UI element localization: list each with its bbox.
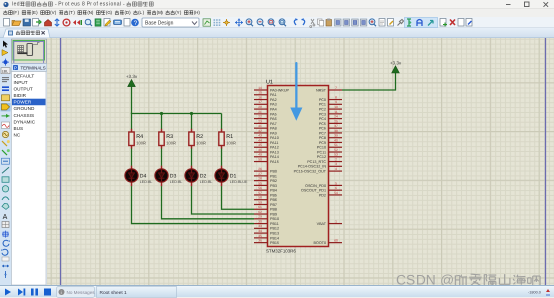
svg-text:PA2: PA2 — [270, 98, 277, 102]
LED D1 LED-BLUE — [215, 166, 248, 187]
svg-text:4: 4 — [335, 167, 337, 171]
svg-text:6: 6 — [335, 186, 337, 190]
pin PA0-WKUP (14) — [254, 86, 290, 93]
svg-text:BOOT0: BOOT0 — [314, 241, 327, 245]
svg-text:S: S — [406, 272, 415, 285]
svg-text:PB3: PB3 — [270, 184, 277, 188]
svg-text:): ) — [36, 10, 38, 15]
svg-text:PB5: PB5 — [270, 193, 277, 197]
svg-text:PB11: PB11 — [270, 222, 279, 226]
svg-text:30: 30 — [258, 219, 262, 223]
svg-text:PD2: PD2 — [319, 193, 326, 197]
svg-text:56: 56 — [258, 186, 262, 190]
pin PC14-OSC32_IN (3) — [298, 162, 342, 169]
wire: D2 to PB9 pin — [192, 186, 255, 214]
pin PB10 (29) — [254, 215, 279, 222]
svg-text:OSCOUT_PD1: OSCOUT_PD1 — [301, 189, 326, 193]
pin PC11 (52) — [317, 148, 342, 155]
wire: D1 to PB8 pin — [222, 186, 255, 209]
pin PB7 (59) — [254, 200, 277, 207]
svg-text:16: 16 — [258, 95, 262, 99]
svg-text:R3: R3 — [166, 134, 173, 140]
svg-text:PB13: PB13 — [270, 232, 279, 236]
svg-text:7: 7 — [335, 86, 337, 90]
svg-text:41: 41 — [258, 124, 262, 128]
svg-text:29: 29 — [258, 215, 262, 219]
svg-text:A: A — [3, 214, 8, 221]
svg-text:?: ? — [134, 20, 138, 27]
svg-text:+3.3v: +3.3v — [390, 61, 402, 66]
svg-text:PC3: PC3 — [319, 112, 326, 116]
wire: R4 to D4 — [131, 149, 133, 166]
svg-text:44: 44 — [258, 138, 262, 142]
svg-text:i: i — [61, 290, 62, 295]
pin PC10 (51) — [317, 143, 342, 150]
svg-text:STM32F103R6: STM32F103R6 — [266, 249, 296, 254]
svg-text:PC12: PC12 — [317, 155, 326, 159]
pin PA15 (50) — [254, 157, 279, 164]
watermark — [396, 272, 540, 287]
pin PC9 (40) — [319, 138, 342, 145]
svg-text:34: 34 — [258, 229, 262, 233]
wire: +3.3v horizontal rail — [131, 113, 222, 115]
junction on rail at R3 column — [160, 112, 163, 115]
wire: R1 to D1 — [221, 149, 223, 166]
pin PC12 (53) — [317, 153, 342, 160]
svg-text:35: 35 — [258, 234, 262, 238]
svg-text:U1: U1 — [266, 80, 273, 86]
svg-text:53: 53 — [334, 153, 338, 157]
pin PA9 (42) — [254, 129, 277, 136]
svg-text:PB15: PB15 — [270, 241, 279, 245]
svg-text:2: 2 — [335, 157, 337, 161]
svg-text:D1: D1 — [230, 174, 237, 180]
svg-text:22: 22 — [258, 115, 262, 119]
pin PC15-OSC32_OUT (4) — [294, 167, 342, 174]
svg-text:1: 1 — [335, 219, 337, 223]
pin PA14 (49) — [254, 153, 279, 160]
svg-text:TERMINALS: TERMINALS — [21, 66, 46, 71]
svg-text:DYNAMIC: DYNAMIC — [14, 119, 36, 124]
svg-text:57: 57 — [258, 191, 262, 195]
svg-text:9: 9 — [335, 100, 337, 104]
pin PB12 (33) — [254, 224, 279, 231]
svg-text:): ) — [180, 10, 182, 15]
svg-text:R2: R2 — [196, 134, 203, 140]
svg-text:@: @ — [440, 272, 454, 285]
svg-text:): ) — [73, 10, 75, 15]
svg-text:l: l — [120, 2, 121, 8]
pin PA1 (15) — [254, 91, 277, 98]
svg-text:39: 39 — [334, 134, 338, 138]
svg-text:PB10: PB10 — [270, 217, 279, 221]
svg-text:62: 62 — [258, 210, 262, 214]
svg-text:): ) — [92, 10, 94, 15]
svg-text:27: 27 — [258, 172, 262, 176]
svg-text:PB9: PB9 — [270, 212, 277, 216]
pin PC13_RTC (2) — [307, 157, 342, 164]
pin PA12 (45) — [254, 143, 279, 150]
pin PC2 (10) — [319, 105, 342, 112]
svg-text:): ) — [111, 10, 113, 15]
svg-text:61: 61 — [258, 205, 262, 209]
svg-text:LED-BLUE: LED-BLUE — [230, 180, 248, 184]
svg-text:D4: D4 — [140, 174, 147, 180]
svg-text:PB2: PB2 — [270, 179, 277, 183]
svg-text:17: 17 — [258, 100, 262, 104]
pin PA6 (22) — [254, 115, 277, 122]
svg-text:): ) — [129, 10, 131, 15]
resistor R4 100R — [129, 129, 146, 149]
pin PB5 (57) — [254, 191, 277, 198]
pin PA11 (44) — [254, 138, 278, 145]
pin PA10 (43) — [254, 134, 279, 141]
svg-text:P: P — [14, 65, 17, 70]
wire: +3.3v terminal down to rail — [131, 87, 133, 114]
svg-text:BIDIR: BIDIR — [14, 93, 27, 98]
pin PC4 (24) — [319, 115, 342, 122]
svg-text:PA13: PA13 — [270, 150, 279, 154]
svg-text:r: r — [62, 2, 64, 8]
svg-text:14: 14 — [258, 86, 262, 90]
svg-text:): ) — [198, 10, 200, 15]
svg-text:Root sheet 1: Root sheet 1 — [100, 290, 128, 296]
svg-text:No Messages: No Messages — [67, 290, 96, 295]
pin PB4 (56) — [254, 186, 277, 193]
svg-text:r: r — [90, 2, 92, 8]
svg-text:PA8: PA8 — [270, 127, 277, 131]
wire: rail drop to R4 — [131, 114, 133, 130]
svg-text:21: 21 — [258, 110, 262, 114]
pin PC0 (8) — [319, 95, 342, 102]
svg-text:LED-BL: LED-BL — [140, 180, 153, 184]
svg-text:): ) — [55, 10, 57, 15]
svg-text:d: d — [17, 2, 20, 8]
svg-text:59: 59 — [258, 200, 262, 204]
pin NRST (7) — [316, 86, 342, 93]
svg-text:51: 51 — [334, 143, 338, 147]
svg-text:PA9: PA9 — [270, 131, 277, 135]
svg-text:PC14-OSC32_IN: PC14-OSC32_IN — [298, 165, 327, 169]
svg-text:): ) — [18, 10, 20, 15]
svg-text:s: s — [77, 2, 80, 8]
pin PB2 (28) — [254, 177, 277, 184]
pin PB3 (55) — [254, 181, 277, 188]
svg-text:PB6: PB6 — [270, 198, 277, 202]
svg-text:PA5: PA5 — [270, 112, 277, 116]
svg-text:PB1: PB1 — [270, 174, 277, 178]
sheet border left — [60, 38, 62, 285]
pin PC5 (25) — [319, 119, 342, 126]
svg-text:INPUT: INPUT — [14, 80, 28, 85]
svg-text:BUS: BUS — [14, 126, 24, 131]
pin OSCIN_PD0 (5) — [305, 181, 342, 188]
LED D4 LED-BLUE — [125, 166, 152, 187]
svg-text:PB0: PB0 — [270, 169, 277, 173]
LED D3 LED-BLUE — [155, 166, 182, 187]
svg-text:33: 33 — [258, 224, 262, 228]
svg-text:15: 15 — [258, 91, 262, 95]
svg-text:LED-BL: LED-BL — [170, 180, 183, 184]
svg-text:+3.3v: +3.3v — [126, 74, 138, 79]
svg-text:PA15: PA15 — [270, 160, 279, 164]
svg-text:PC5: PC5 — [319, 122, 326, 126]
sheet border right — [545, 38, 547, 285]
pin PB0 (26) — [254, 167, 277, 174]
svg-text:50: 50 — [258, 157, 262, 161]
svg-text:D2: D2 — [200, 174, 207, 180]
pin VBAT (1) — [317, 219, 342, 226]
svg-text:PA14: PA14 — [270, 155, 279, 159]
svg-text:t: t — [68, 2, 70, 8]
svg-text:LBL: LBL — [2, 70, 8, 74]
svg-text:8: 8 — [335, 95, 337, 99]
svg-text:25: 25 — [334, 119, 338, 123]
svg-text:100R: 100R — [166, 141, 176, 146]
svg-text:D3: D3 — [170, 174, 177, 180]
pin PA4 (20) — [254, 105, 277, 112]
svg-text:40: 40 — [334, 138, 338, 142]
svg-text:PA10: PA10 — [270, 136, 279, 140]
pin PC3 (11) — [319, 110, 342, 117]
svg-text:38: 38 — [334, 129, 338, 133]
svg-text:PC10: PC10 — [317, 146, 326, 150]
svg-text:PC13_RTC: PC13_RTC — [307, 160, 326, 164]
svg-text:PC2: PC2 — [319, 107, 326, 111]
svg-text:100R: 100R — [226, 141, 236, 146]
pin PA3 (17) — [254, 100, 277, 107]
power terminal +3.3v (left) — [126, 74, 138, 87]
pin PB13 (34) — [254, 229, 279, 236]
svg-text:PB12: PB12 — [270, 227, 279, 231]
pin PA7 (23) — [254, 119, 277, 126]
svg-text:f: f — [97, 2, 99, 8]
svg-text:52: 52 — [334, 148, 338, 152]
wire: D3 to PB10 pin — [162, 186, 255, 219]
svg-text:43: 43 — [258, 134, 262, 138]
svg-text:OUTPUT: OUTPUT — [14, 87, 33, 92]
svg-text:D: D — [416, 272, 426, 285]
pin BOOT0 (60) — [314, 239, 343, 246]
svg-text:PC8: PC8 — [319, 136, 326, 140]
pin PC6 (37) — [319, 124, 342, 131]
svg-text:-: - — [55, 2, 57, 8]
svg-text:R1: R1 — [226, 134, 233, 140]
svg-text:N: N — [426, 272, 436, 285]
wire: rail drop to R2 — [191, 114, 193, 130]
pin PB6 (58) — [254, 196, 277, 203]
pin PC8 (39) — [319, 134, 342, 141]
svg-text:PA7: PA7 — [270, 122, 277, 126]
pin PA8 (41) — [254, 124, 277, 131]
svg-text:5: 5 — [335, 181, 337, 185]
pin PA2 (16) — [254, 95, 277, 102]
pin PB1 (27) — [254, 172, 277, 179]
pin PB8 (61) — [254, 205, 277, 212]
svg-text:PB14: PB14 — [270, 236, 279, 240]
junction on rail at R2 column — [190, 112, 193, 115]
resistor R2 100R — [189, 129, 206, 149]
svg-text:58: 58 — [258, 196, 262, 200]
svg-text:PB7: PB7 — [270, 203, 277, 207]
pin PB11 (30) — [254, 219, 279, 226]
svg-text:): ) — [161, 10, 163, 15]
svg-text:VBAT: VBAT — [317, 222, 327, 226]
svg-text:42: 42 — [258, 129, 262, 133]
svg-text:PC15-OSC32_OUT: PC15-OSC32_OUT — [294, 169, 327, 173]
svg-text:11: 11 — [334, 110, 338, 114]
pin PB14 (35) — [254, 234, 279, 241]
power terminal +3.3v (right) — [390, 61, 402, 73]
svg-text:PA1: PA1 — [270, 93, 277, 97]
pin PD2 (54) — [319, 191, 342, 198]
wire: rail drop to R3 — [161, 114, 163, 130]
svg-text:PC4: PC4 — [319, 117, 326, 121]
pin PB15 (36) — [254, 239, 279, 246]
svg-text:POWER: POWER — [14, 100, 32, 105]
IC U1 STM32F103R6 microcontroller — [266, 80, 329, 254]
svg-text:PA6: PA6 — [270, 117, 277, 121]
svg-text:10: 10 — [334, 105, 338, 109]
annotation arrow (blue cursor) — [290, 62, 302, 121]
svg-text:24: 24 — [334, 115, 338, 119]
svg-text:26: 26 — [258, 167, 262, 171]
svg-text:PC7: PC7 — [319, 131, 326, 135]
svg-text:60: 60 — [334, 239, 338, 243]
svg-text:PC9: PC9 — [319, 141, 326, 145]
pin PA13 (46) — [254, 148, 279, 155]
svg-text:PC1: PC1 — [319, 103, 326, 107]
svg-text:PB4: PB4 — [270, 189, 277, 193]
svg-text:36: 36 — [258, 239, 262, 243]
LED D2 LED-BLUE — [185, 166, 212, 187]
svg-text:-1800.0: -1800.0 — [528, 291, 541, 295]
svg-text:PC6: PC6 — [319, 127, 326, 131]
resistor R1 100R — [219, 129, 236, 149]
pin OSCOUT_PD1 (6) — [301, 186, 342, 193]
svg-text:): ) — [143, 10, 145, 15]
svg-text:37: 37 — [334, 124, 338, 128]
svg-text:R4: R4 — [136, 134, 143, 140]
pin PA5 (21) — [254, 110, 277, 117]
svg-text:28: 28 — [258, 177, 262, 181]
svg-text:PA3: PA3 — [270, 103, 277, 107]
pin PC7 (38) — [319, 129, 342, 136]
svg-text:54: 54 — [334, 191, 338, 195]
svg-text:PA0-WKUP: PA0-WKUP — [270, 88, 290, 92]
svg-text:Base Design: Base Design — [145, 20, 174, 26]
pin PB9 (62) — [254, 210, 277, 217]
svg-text:8: 8 — [82, 2, 85, 8]
svg-text:LED-BL: LED-BL — [200, 180, 213, 184]
resistor R3 100R — [159, 129, 176, 149]
svg-text:C: C — [396, 272, 406, 285]
svg-text:3: 3 — [335, 162, 337, 166]
svg-text:PC0: PC0 — [319, 98, 326, 102]
svg-text:100R: 100R — [196, 141, 206, 146]
wire: rail drop to R1 — [221, 114, 223, 130]
svg-text:49: 49 — [258, 153, 262, 157]
svg-text:PA4: PA4 — [270, 107, 277, 111]
svg-text:-: - — [123, 2, 125, 8]
svg-text:20: 20 — [258, 105, 262, 109]
pin PC1 (9) — [319, 100, 342, 107]
svg-text:23: 23 — [258, 119, 262, 123]
svg-text:45: 45 — [258, 143, 262, 147]
svg-text:100R: 100R — [136, 141, 146, 146]
svg-text:OSCIN_PD0: OSCIN_PD0 — [305, 184, 326, 188]
svg-text:PA11: PA11 — [270, 141, 278, 145]
svg-text:NC: NC — [14, 132, 21, 137]
svg-text:55: 55 — [258, 181, 262, 185]
svg-text:DEFAULT: DEFAULT — [14, 74, 35, 79]
svg-text:PB8: PB8 — [270, 208, 277, 212]
svg-text:GROUND: GROUND — [14, 106, 35, 111]
wire: R2 to D2 — [191, 149, 193, 166]
wire: R3 to D3 — [161, 149, 163, 166]
svg-text:CHASSIS: CHASSIS — [14, 113, 35, 118]
svg-text:46: 46 — [258, 148, 262, 152]
wire: NRST to +3.3v terminal — [342, 72, 396, 91]
svg-text:NRST: NRST — [316, 88, 327, 92]
wire: D4 to PB11 pin — [132, 186, 255, 223]
svg-text:PC11: PC11 — [317, 150, 326, 154]
svg-text:PA12: PA12 — [270, 146, 279, 150]
